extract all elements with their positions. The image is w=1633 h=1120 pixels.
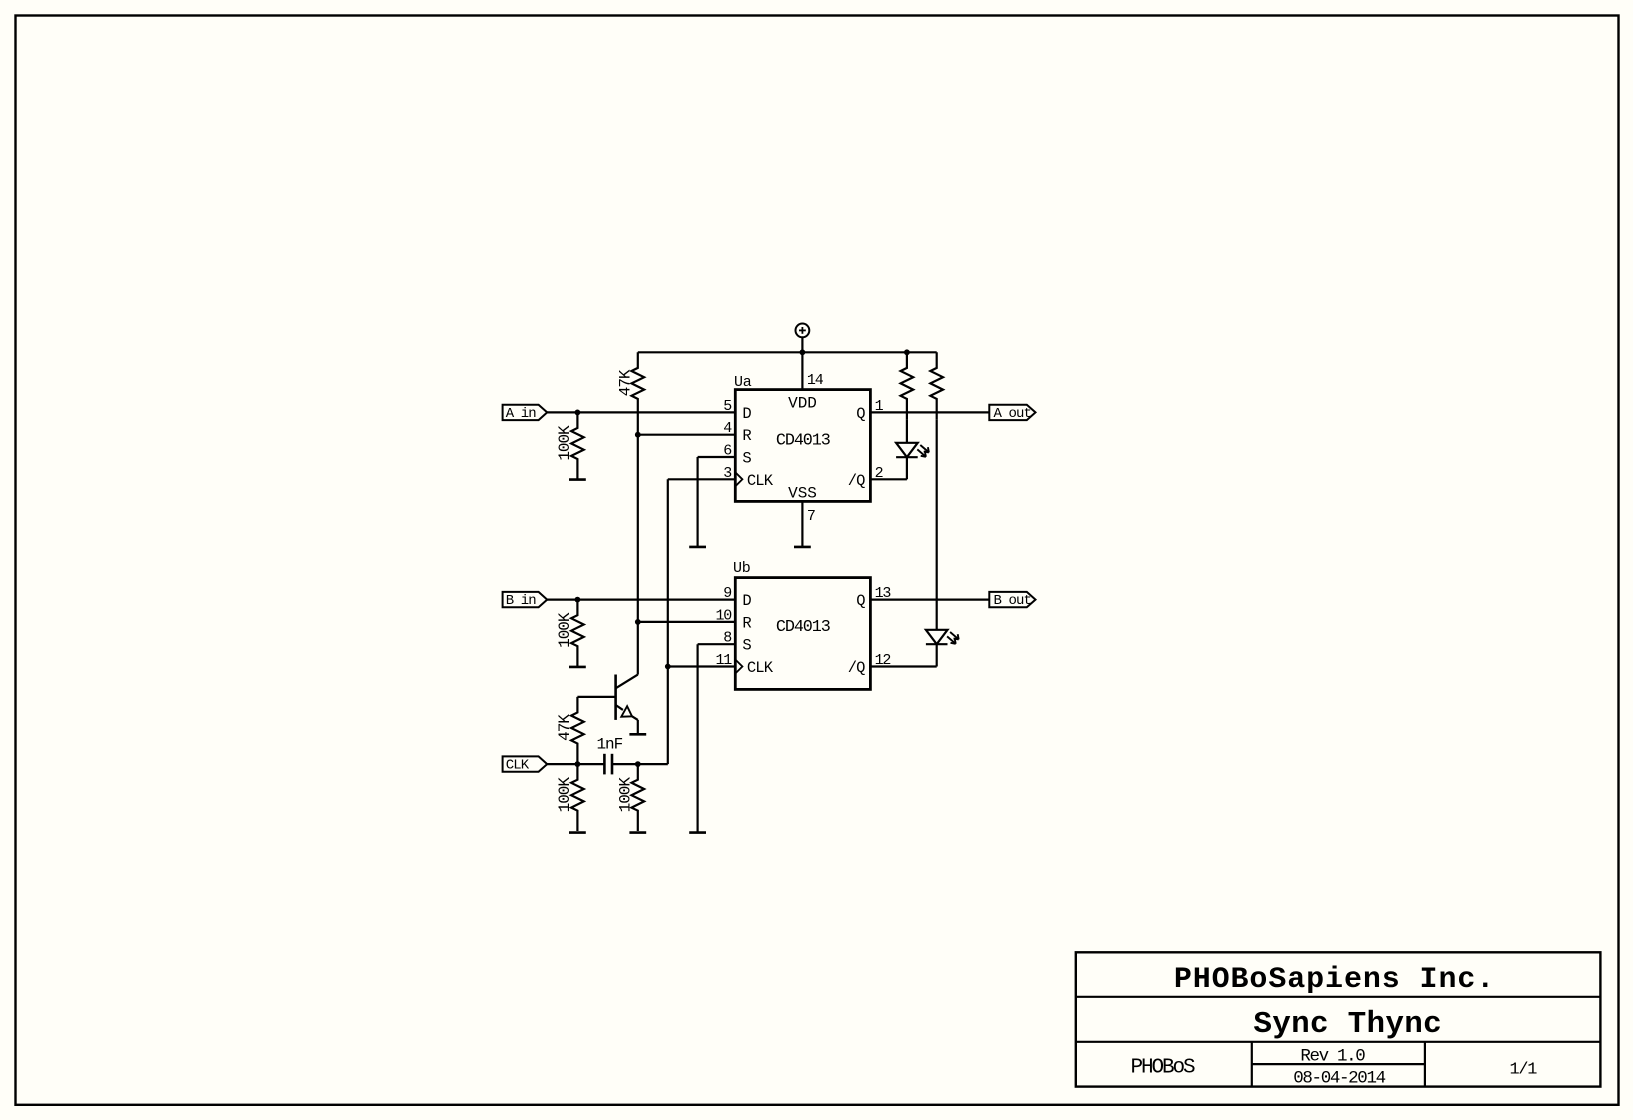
svg-text:7: 7 <box>807 508 815 525</box>
LED D1 <box>896 443 918 457</box>
junction R net / pin 10 <box>635 619 641 625</box>
LED D2 <box>926 630 948 644</box>
capacitor C1 1nF <box>604 754 612 775</box>
svg-text:8: 8 <box>723 630 732 647</box>
resistor 100K R8 <box>632 764 645 831</box>
svg-text:3: 3 <box>723 465 732 482</box>
title block rev/date split <box>1252 1063 1425 1065</box>
svg-text:CD4013: CD4013 <box>776 618 830 637</box>
svg-text:11: 11 <box>715 652 732 669</box>
svg-text:D: D <box>742 405 751 423</box>
svg-text:100K: 100K <box>556 612 574 648</box>
svg-text:14: 14 <box>807 372 824 389</box>
resistor 47K R1 <box>632 352 645 434</box>
svg-text:B in: B in <box>506 593 537 609</box>
svg-text:100K: 100K <box>556 777 574 813</box>
svg-text:CD4013: CD4013 <box>776 431 830 450</box>
wire S Ua down <box>696 457 698 547</box>
svg-text:4: 4 <box>723 420 732 437</box>
resistor R4 LED B <box>930 352 943 419</box>
svg-text:/Q: /Q <box>848 472 865 490</box>
junction A in / R2 <box>575 410 581 416</box>
ground Q1 emitter <box>629 733 646 736</box>
junction power rail / pin14 <box>800 349 806 355</box>
resistor 100K R7 <box>571 764 584 831</box>
node A out flag <box>989 405 1035 420</box>
svg-text:VDD: VDD <box>788 394 817 412</box>
ground S Ub <box>689 831 706 834</box>
wire LED1 cathode <box>906 457 908 479</box>
wire pin 6 S <box>698 456 736 458</box>
ground S Ua <box>689 546 706 549</box>
svg-text:100K: 100K <box>556 425 574 461</box>
wire R3 to LED1 <box>906 419 908 443</box>
junction R net / pin 4 <box>635 432 641 438</box>
svg-text:Q: Q <box>856 405 865 423</box>
svg-text:08-04-2014: 08-04-2014 <box>1293 1069 1385 1089</box>
svg-text:1nF: 1nF <box>597 735 623 753</box>
wire LED2 to pin 12 <box>870 665 936 667</box>
clock wedge Ub <box>735 660 742 674</box>
node CLK flag <box>503 756 548 771</box>
svg-text:S: S <box>742 450 751 468</box>
wire CLK to C1 <box>547 763 604 765</box>
svg-text:47K: 47K <box>617 369 635 396</box>
svg-text:A in: A in <box>506 406 537 422</box>
svg-text:Q: Q <box>856 592 865 610</box>
svg-text:S: S <box>742 637 751 655</box>
svg-text:9: 9 <box>723 585 731 602</box>
wire pin 8 S <box>698 643 736 645</box>
svg-text:R: R <box>742 427 751 445</box>
svg-text:VSS: VSS <box>788 484 817 502</box>
svg-text:PHOBoSapiens Inc.: PHOBoSapiens Inc. <box>1174 963 1495 997</box>
svg-text:10: 10 <box>715 607 732 624</box>
flip-flop U1b CD4013 <box>735 578 870 690</box>
wire R net down to Q1 collector <box>637 622 639 675</box>
wire Q1 emitter <box>637 720 639 734</box>
junction B in / R5 <box>575 597 581 603</box>
wire B in to pin 9 <box>547 598 735 600</box>
wire pin 14 <box>801 352 803 389</box>
wire C1 to CLK net <box>612 763 668 765</box>
node B out flag <box>989 592 1035 607</box>
svg-text:Rev 1.0: Rev 1.0 <box>1300 1047 1365 1067</box>
junction CLK / R6 / R7 <box>575 761 581 767</box>
title block line 1 <box>1076 996 1601 998</box>
ground R8 <box>629 831 646 834</box>
wire pin 11 CLK <box>668 665 736 667</box>
power symbol +V <box>796 324 810 353</box>
svg-text:Sync Thync: Sync Thync <box>1253 1007 1442 1042</box>
clock wedge Ua <box>735 472 742 486</box>
svg-text:47K: 47K <box>556 714 574 741</box>
svg-text:Ua: Ua <box>734 374 752 391</box>
ground pin 7 <box>794 546 811 549</box>
transistor Q1 PNP <box>616 675 638 720</box>
node B in flag <box>503 592 548 607</box>
wire CLK net vertical <box>667 479 669 764</box>
wire R net vertical <box>637 435 639 622</box>
wire S Ub down <box>696 644 698 832</box>
node A in flag <box>503 405 548 420</box>
svg-text:1/1: 1/1 <box>1509 1061 1537 1080</box>
ground R2 <box>569 478 586 481</box>
wire R net to pin 10 <box>638 621 736 623</box>
svg-text:R: R <box>742 614 751 632</box>
resistor R3 LED A <box>901 352 914 419</box>
ground R5 <box>569 666 586 669</box>
wire pin 3 CLK <box>668 478 736 480</box>
wire power rail <box>638 351 937 353</box>
svg-text:CLK: CLK <box>747 659 774 677</box>
wire A in to pin 5 <box>547 411 735 413</box>
svg-text:A out: A out <box>994 406 1032 422</box>
svg-text:5: 5 <box>723 398 732 415</box>
resistor 100K R5 <box>571 600 584 667</box>
title block column 1 <box>1251 1042 1253 1087</box>
title block line 2 <box>1076 1041 1601 1043</box>
svg-text:D: D <box>742 592 751 610</box>
flip-flop U1a CD4013 <box>735 390 870 502</box>
svg-text:B out: B out <box>994 593 1032 609</box>
svg-text:/Q: /Q <box>848 659 865 677</box>
wire pin13 Q to B out <box>870 598 989 600</box>
junction power rail / R3 <box>904 349 910 355</box>
wire LED1 to pin 2 <box>870 478 907 480</box>
wire LED2 cathode <box>936 644 938 666</box>
wire pin 7 <box>801 501 803 547</box>
wire R net to pin 4 <box>638 434 736 436</box>
resistor 47K R6 <box>571 697 584 764</box>
svg-text:CLK: CLK <box>506 758 530 774</box>
svg-text:PHOBoS: PHOBoS <box>1130 1057 1195 1080</box>
wire Q1 base <box>577 696 615 698</box>
svg-text:100K: 100K <box>617 777 635 813</box>
title block column 2 <box>1424 1042 1426 1087</box>
junction C1 / R8 <box>635 761 641 767</box>
wire pin1 Q to A out <box>870 411 989 413</box>
resistor 100K R2 <box>571 412 584 479</box>
svg-text:CLK: CLK <box>747 472 774 490</box>
title block frame <box>1076 952 1601 1086</box>
wire R4 to LED2 <box>936 419 938 630</box>
svg-text:Ub: Ub <box>733 560 750 577</box>
ground R7 <box>569 831 586 834</box>
svg-text:6: 6 <box>723 443 732 460</box>
junction CLK net / pin 11 <box>665 664 671 670</box>
